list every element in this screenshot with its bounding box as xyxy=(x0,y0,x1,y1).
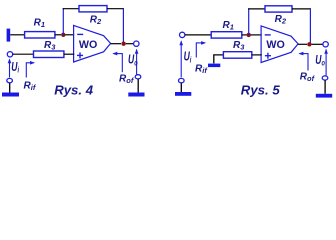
svg-text:Rif: Rif xyxy=(24,80,37,92)
ground (input side) xyxy=(175,92,191,96)
label R3 xyxy=(44,40,56,52)
arrow Rif (looking into input) xyxy=(196,41,206,57)
output lower terminal (open circle above ground) xyxy=(322,76,328,80)
label R3 xyxy=(233,40,245,52)
wire (op-amp output to node B) xyxy=(111,43,121,45)
input terminal (open circle, non-inverting path) xyxy=(7,52,12,57)
wire (feedback top horizontal to R2) xyxy=(63,8,79,10)
svg-text:Rof: Rof xyxy=(300,71,316,83)
wire (R2 to feedback right corner) xyxy=(292,8,311,10)
wire (node C to op-amp inverting input) xyxy=(251,34,262,36)
label Rof xyxy=(300,71,316,83)
ground (input side) xyxy=(2,93,19,97)
op-amp U1 label WO xyxy=(79,39,97,51)
wire (feedback riser, node C up to R2 level) xyxy=(248,8,250,35)
wire (node A to op-amp inverting input) xyxy=(65,34,74,36)
svg-text:R1: R1 xyxy=(223,20,234,32)
output terminal (open circle) xyxy=(323,42,328,47)
input terminal (open circle, inverting path) xyxy=(180,32,185,37)
arrow Uo (output voltage arrow) xyxy=(135,49,139,75)
svg-text:Ui: Ui xyxy=(11,60,20,75)
svg-text:Rys. 5: Rys. 5 xyxy=(241,82,281,97)
ground (output side) xyxy=(316,94,332,98)
svg-text:Rof: Rof xyxy=(119,73,135,85)
wire (ground bar to R1) xyxy=(10,34,24,36)
wire (feedback top horizontal to R2) xyxy=(248,8,265,10)
output terminal (open circle) xyxy=(134,41,139,46)
wire (lower terminal to ground) xyxy=(324,80,326,94)
resistor R2 xyxy=(79,6,107,12)
label Rif xyxy=(195,64,208,76)
input lower terminal (open circle above ground) xyxy=(179,78,185,82)
op-amp U2 (WO) body xyxy=(261,26,298,63)
op-amp U2 plus input sign xyxy=(265,53,271,59)
svg-text:R3: R3 xyxy=(44,40,56,52)
label Uo xyxy=(128,53,138,68)
input lower terminal (open circle above ground) xyxy=(7,78,13,82)
arrow Uo (output voltage arrow) xyxy=(324,49,328,76)
ground (output side) xyxy=(128,93,144,97)
node A (junction dot, inverting input net) xyxy=(61,33,65,37)
label Rif xyxy=(24,80,37,92)
svg-text:WO: WO xyxy=(266,39,284,51)
ground (rotated bar at left end of R1) xyxy=(7,29,11,42)
wire (op-amp output to node D) xyxy=(298,43,307,45)
label R2 xyxy=(275,14,287,26)
caption Rys. 5 xyxy=(241,82,281,97)
svg-text:R1: R1 xyxy=(34,18,45,30)
label Rof xyxy=(119,73,135,85)
wire (lower terminal to ground) xyxy=(137,79,139,93)
node D (output junction dot) xyxy=(307,42,311,46)
arrow Rof (looking into output) xyxy=(112,52,122,72)
op-amp U2 minus input sign xyxy=(265,34,271,36)
label Ui xyxy=(184,50,193,65)
wire (input terminal to R3) xyxy=(13,53,34,55)
wire (R3 to op-amp non-inverting input) xyxy=(252,54,262,56)
op-amp U2 label WO xyxy=(266,39,284,51)
resistor R1 xyxy=(25,32,55,38)
label R1 xyxy=(34,18,45,30)
wire (node B to output terminal) xyxy=(126,43,134,45)
wire (input terminal to R1) xyxy=(185,34,211,36)
resistor R3 xyxy=(223,52,251,59)
op-amp U1 (WO) body xyxy=(74,25,111,62)
svg-text:R3: R3 xyxy=(233,40,245,52)
label Ui xyxy=(11,60,20,75)
node C (junction dot, inverting input net) xyxy=(247,33,251,37)
svg-text:R2: R2 xyxy=(275,14,287,26)
resistor R2 xyxy=(265,6,292,12)
wire (node D to output terminal) xyxy=(312,43,323,45)
op-amp U1 minus input sign xyxy=(77,33,83,35)
wire (R3 to op-amp non-inverting input) xyxy=(64,53,74,55)
op-amp U1 plus input sign xyxy=(77,52,83,58)
arrow Ui (input voltage arrow) xyxy=(8,58,12,77)
wire (R1 to node C) xyxy=(242,34,247,36)
wire (feedback riser, node A up to R2 level) xyxy=(62,8,64,35)
label Uo xyxy=(315,53,325,68)
wire (feedback right drop to output node) xyxy=(309,9,311,44)
wire (input lower terminal to ground) xyxy=(9,83,11,92)
resistor R3 xyxy=(34,51,64,58)
label R2 xyxy=(90,14,102,26)
ground (middle, R3 left end) xyxy=(208,64,220,68)
arrow Ui (input voltage arrow) xyxy=(179,40,183,77)
svg-text:Ui: Ui xyxy=(184,50,193,65)
wire (R2 to feedback right corner) xyxy=(107,8,124,10)
wire (R1 to node A) xyxy=(55,34,61,36)
svg-text:Rif: Rif xyxy=(195,64,208,76)
label R1 xyxy=(223,20,234,32)
resistor R1 xyxy=(211,32,242,38)
arrow Rof (looking into output) xyxy=(298,52,308,71)
caption Rys. 4 xyxy=(54,82,94,97)
svg-text:WO: WO xyxy=(79,39,97,51)
wire (feedback right drop to output node) xyxy=(122,9,124,44)
arrow Rif (looking into input) xyxy=(26,61,35,78)
svg-text:R2: R2 xyxy=(90,14,102,26)
output lower terminal (open circle above ground) xyxy=(135,75,141,79)
wire (ground L to R3) xyxy=(214,55,224,64)
node B (output junction dot) xyxy=(121,42,125,46)
svg-text:Uo: Uo xyxy=(315,53,325,68)
svg-text:Rys. 4: Rys. 4 xyxy=(54,82,94,97)
wire (input lower terminal to ground) xyxy=(180,83,182,92)
